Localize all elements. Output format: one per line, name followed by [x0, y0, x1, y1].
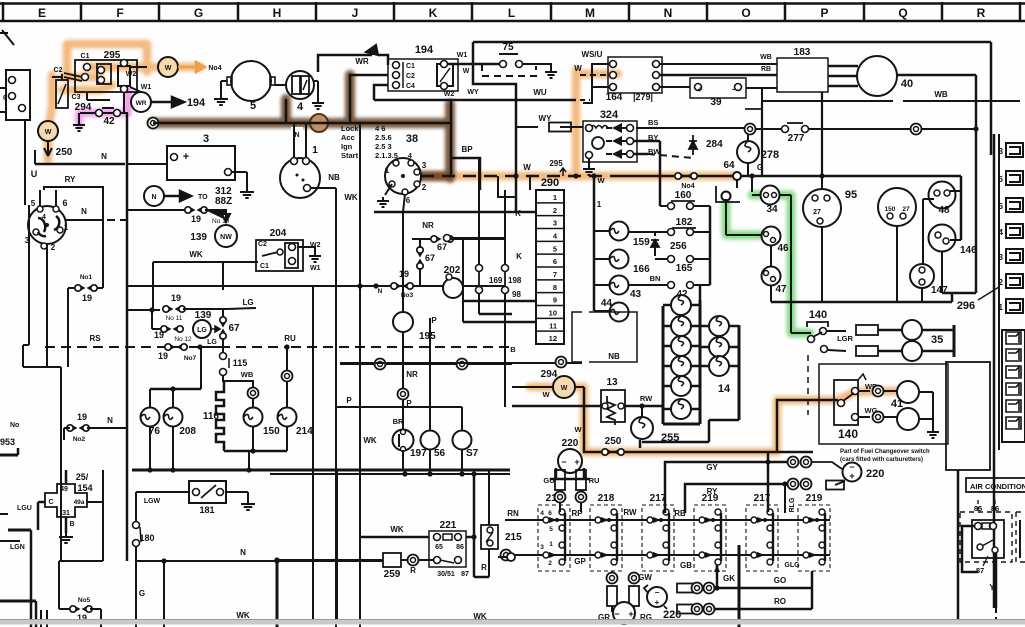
- lamp 41b: [897, 408, 919, 430]
- svg-text:220: 220: [562, 438, 579, 449]
- svg-text:47: 47: [775, 284, 787, 295]
- svg-text:Acc: Acc: [341, 133, 355, 142]
- svg-text:−: −: [614, 609, 619, 619]
- svg-text:N: N: [378, 288, 383, 295]
- svg-text:198: 198: [508, 276, 522, 285]
- svg-text:4: 4: [408, 153, 412, 160]
- circle N: [144, 186, 164, 206]
- svg-text:19: 19: [154, 330, 164, 340]
- lamp 35b: [821, 346, 828, 353]
- battery 220 right: [843, 463, 862, 482]
- matrix frame bottom: [639, 440, 642, 448]
- svg-text:F: F: [116, 6, 123, 20]
- connector 67 LG: [222, 309, 224, 318]
- svg-text:19: 19: [191, 214, 201, 224]
- svg-text:4: 4: [999, 228, 1004, 237]
- ignition switch 38: [385, 158, 421, 194]
- svg-text:3: 3: [999, 253, 1004, 262]
- rotary switch 6: [28, 206, 66, 244]
- svg-text:208: 208: [179, 426, 196, 437]
- svg-text:220: 220: [866, 468, 884, 480]
- warning lamp 47: [762, 267, 781, 286]
- wire WR arrow: [314, 64, 388, 66]
- svg-text:WY: WY: [539, 114, 553, 123]
- circle NW 139: [215, 225, 237, 247]
- connector 67 horiz: [412, 238, 430, 240]
- svg-text:H: H: [273, 6, 282, 20]
- svg-text:34: 34: [766, 204, 778, 215]
- matrix bottom: [663, 423, 700, 426]
- svg-text:25/: 25/: [76, 472, 89, 482]
- connector block 194: [388, 59, 458, 91]
- left verticals: [28, 205, 30, 345]
- svg-text:W: W: [561, 385, 568, 392]
- main feed wire W right: [421, 175, 615, 178]
- svg-text:Ign: Ign: [341, 142, 353, 151]
- svg-text:159: 159: [633, 237, 650, 248]
- svg-text:W1: W1: [141, 84, 152, 91]
- svg-text:WB: WB: [934, 90, 948, 99]
- connector 19 No2: [67, 425, 73, 431]
- svg-text:2: 2: [548, 560, 552, 567]
- svg-text:W2: W2: [444, 91, 455, 98]
- svg-text:G: G: [139, 589, 145, 598]
- svg-text:115: 115: [233, 358, 248, 368]
- switch 277: [782, 126, 789, 133]
- bottom scan band: [0, 620, 1025, 625]
- wire W1 drop: [591, 173, 596, 178]
- svg-text:−: −: [732, 85, 737, 94]
- svg-text:6: 6: [62, 198, 67, 208]
- svg-text:3: 3: [553, 219, 557, 228]
- gauge 95: [803, 189, 841, 227]
- GY wire: [665, 462, 788, 513]
- svg-text:164: 164: [606, 92, 623, 103]
- connector 250: [602, 449, 608, 455]
- svg-text:Lock: Lock: [341, 124, 359, 133]
- svg-text:No1: No1: [80, 274, 93, 281]
- wire N horizontal: [35, 163, 125, 166]
- svg-text:WK: WK: [344, 193, 358, 202]
- highlight brown ignition trace: [153, 75, 450, 178]
- svg-text:169: 169: [489, 276, 503, 285]
- lamp 255: [641, 406, 643, 417]
- svg-text:294: 294: [75, 102, 92, 113]
- svg-text:14: 14: [718, 383, 731, 395]
- svg-text:64: 64: [723, 160, 735, 171]
- wire WY mid: [516, 126, 538, 128]
- svg-text:48: 48: [938, 205, 950, 216]
- svg-text:W: W: [165, 65, 172, 72]
- svg-text:W: W: [597, 176, 605, 185]
- wire WK: [153, 261, 258, 263]
- fuel changeover box: [819, 364, 948, 444]
- svg-text:27: 27: [902, 206, 910, 213]
- svg-text:277: 277: [788, 133, 805, 144]
- svg-text:N: N: [107, 416, 113, 425]
- connector No1 19: [102, 281, 104, 288]
- svg-text:No: No: [10, 422, 19, 429]
- wire P step: [336, 406, 462, 408]
- svg-text:67: 67: [228, 323, 240, 334]
- svg-text:R: R: [481, 563, 487, 572]
- svg-text:G: G: [194, 6, 203, 20]
- svg-text:3: 3: [422, 161, 427, 170]
- svg-text:19: 19: [171, 293, 181, 303]
- svg-text:C4: C4: [406, 83, 415, 90]
- svg-text:N: N: [664, 6, 673, 20]
- svg-text:1: 1: [64, 223, 69, 232]
- relay 221: [429, 531, 466, 567]
- lamp 150: [248, 388, 259, 399]
- alternator 40: [857, 56, 897, 96]
- svg-text:LGR: LGR: [837, 334, 853, 343]
- svg-text:BP: BP: [461, 145, 473, 154]
- svg-text:LGU: LGU: [17, 505, 32, 512]
- top-left fragments: [0, 32, 8, 34]
- svg-text:No4: No4: [208, 65, 221, 72]
- switch 42: [80, 112, 128, 114]
- svg-text:B: B: [69, 521, 74, 528]
- svg-text:RN: RN: [507, 509, 519, 518]
- svg-text:Part of Fuel Changeover switch: Part of Fuel Changeover switch: [840, 449, 930, 455]
- connector 19 No3: [391, 283, 397, 289]
- svg-text:11: 11: [549, 321, 557, 330]
- relay top line: [505, 519, 830, 521]
- connector 67 vert: [417, 247, 423, 253]
- svg-text:87: 87: [461, 571, 469, 578]
- svg-text:250: 250: [605, 436, 622, 447]
- svg-text:255: 255: [661, 432, 679, 444]
- svg-text:NR: NR: [406, 370, 418, 379]
- svg-text:C2: C2: [54, 67, 63, 74]
- svg-text:2: 2: [422, 183, 427, 192]
- svg-text:42: 42: [103, 116, 115, 127]
- wire N bottom: [137, 560, 383, 562]
- svg-text:RY: RY: [707, 487, 718, 496]
- svg-text:GU: GU: [543, 476, 554, 485]
- left connector block: [6, 70, 30, 120]
- lamp branch 76 208: [200, 347, 202, 389]
- switch 165: [668, 256, 675, 263]
- svg-text:N: N: [101, 152, 107, 161]
- svg-text:No7: No7: [184, 355, 197, 362]
- svg-text:3: 3: [999, 147, 1004, 156]
- svg-text:−: −: [561, 457, 566, 467]
- svg-text:WK: WK: [363, 436, 377, 445]
- svg-text:38: 38: [406, 133, 418, 145]
- svg-text:182: 182: [676, 217, 693, 228]
- svg-text:K: K: [516, 252, 522, 261]
- svg-text:5: 5: [250, 100, 256, 112]
- svg-text:WR: WR: [355, 57, 369, 66]
- svg-text:6: 6: [999, 175, 1004, 184]
- ballast 4: [286, 71, 314, 99]
- svg-text:GY: GY: [706, 463, 718, 472]
- bus under lamps: [224, 450, 287, 453]
- circle WR to 194 arrow: [131, 92, 151, 112]
- svg-text:RU: RU: [284, 334, 296, 343]
- svg-text:5: 5: [549, 526, 553, 533]
- svg-text:GK: GK: [723, 574, 735, 583]
- svg-text:195: 195: [419, 331, 436, 342]
- svg-text:GB: GB: [680, 561, 692, 570]
- svg-text:219: 219: [806, 493, 823, 504]
- fuses GU RU: [555, 470, 565, 490]
- svg-text:BN: BN: [650, 274, 661, 283]
- connector stack lower: [1002, 330, 1025, 442]
- svg-text:290: 290: [541, 177, 559, 189]
- svg-text:160: 160: [675, 190, 692, 201]
- connector No5: [102, 470, 104, 561]
- svg-text:35: 35: [931, 334, 943, 346]
- svg-text:C1: C1: [81, 53, 90, 60]
- svg-text:65: 65: [435, 544, 443, 551]
- bottom left corner: [0, 600, 36, 603]
- svg-text:165: 165: [676, 263, 693, 274]
- svg-text:256: 256: [670, 241, 687, 252]
- matrix lamps right: [700, 325, 739, 328]
- svg-text:WK: WK: [236, 611, 250, 620]
- wire 238: [447, 237, 505, 239]
- svg-text:W: W: [542, 390, 550, 399]
- fuse 259: [277, 559, 383, 561]
- junction to 95: [751, 176, 753, 192]
- svg-text:278: 278: [761, 149, 779, 161]
- switch 215: [488, 470, 490, 525]
- svg-text:NB: NB: [608, 352, 620, 361]
- svg-text:GP: GP: [574, 557, 586, 566]
- svg-text:204: 204: [270, 228, 287, 239]
- svg-text:1: 1: [312, 145, 318, 156]
- svg-text:RY: RY: [65, 175, 76, 184]
- lamp 56: [421, 431, 440, 450]
- svg-text:No3: No3: [401, 292, 414, 299]
- svg-text:250: 250: [56, 147, 73, 158]
- gauge 150 27: [878, 188, 916, 226]
- svg-text:67: 67: [425, 253, 435, 263]
- svg-text:WR: WR: [136, 100, 147, 107]
- svg-text:139: 139: [190, 232, 207, 243]
- connector 19 No10: [127, 209, 185, 211]
- switch 115: [222, 338, 224, 352]
- svg-text:46: 46: [777, 243, 789, 254]
- svg-text:WB: WB: [760, 54, 772, 61]
- svg-text:296: 296: [957, 300, 975, 312]
- lamp 41a: [897, 381, 919, 403]
- circle W left: [38, 121, 58, 141]
- ac second dashed box: [1016, 511, 1025, 513]
- air condition frame: [957, 470, 960, 620]
- svg-text:RU: RU: [589, 476, 600, 485]
- battery 2 and GO RO runs: [647, 587, 667, 607]
- svg-text:S7: S7: [466, 448, 479, 459]
- svg-text:3: 3: [203, 133, 209, 145]
- svg-text:No4: No4: [681, 183, 694, 190]
- svg-text:197: 197: [410, 448, 427, 459]
- svg-text:19: 19: [399, 269, 409, 279]
- battery 220 bottom: [613, 602, 635, 624]
- gauge 48: [929, 182, 956, 209]
- svg-text:GLG: GLG: [784, 562, 800, 569]
- svg-text:Start: Start: [341, 151, 359, 160]
- svg-text:6: 6: [3, 95, 7, 102]
- wire RW: [336, 405, 601, 407]
- wire 314 322 thick: [462, 239, 464, 322]
- gauge 147: [910, 264, 934, 288]
- svg-text:NW: NW: [220, 234, 232, 241]
- thick vertical 474: [473, 474, 476, 577]
- svg-text:N: N: [81, 207, 87, 216]
- wire to 39: [660, 86, 690, 88]
- svg-text:1: 1: [385, 166, 390, 175]
- svg-text:RW: RW: [623, 508, 637, 517]
- svg-text:67: 67: [437, 242, 447, 252]
- lamp S7: [453, 431, 472, 450]
- svg-text:3: 3: [540, 544, 544, 551]
- svg-text:1: 1: [553, 193, 557, 202]
- svg-text:88Z: 88Z: [215, 196, 232, 207]
- circle LG 139: [151, 310, 153, 329]
- lamp 278: [737, 141, 759, 163]
- wire long horiz 212: [374, 211, 536, 214]
- svg-text:C3: C3: [72, 94, 81, 101]
- svg-text:Y: Y: [989, 583, 995, 592]
- svg-text:953: 953: [0, 437, 15, 447]
- svg-text:87: 87: [976, 566, 984, 575]
- vertical right edge: [990, 42, 993, 155]
- gauge 146: [929, 225, 956, 252]
- svg-text:44: 44: [601, 298, 613, 309]
- relay 204: [256, 240, 303, 271]
- lamp 76: [141, 408, 160, 427]
- svg-text:RB: RB: [761, 66, 771, 73]
- frame stub 109: [745, 108, 762, 110]
- svg-text:1: 1: [597, 200, 602, 209]
- bracket 64: [716, 186, 740, 202]
- lamp 214: [282, 371, 293, 382]
- svg-text:NR: NR: [422, 221, 434, 230]
- svg-text:218: 218: [598, 493, 615, 504]
- svg-text:95: 95: [845, 189, 857, 201]
- svg-text:M: M: [585, 6, 595, 20]
- svg-text:P: P: [820, 6, 828, 20]
- GO wire: [717, 587, 812, 590]
- ac wires: [962, 526, 978, 572]
- ac relay dashed: [960, 512, 1012, 562]
- svg-text:W: W: [523, 163, 531, 172]
- relay 218 to battery 220 bottom: [611, 571, 613, 573]
- matrix lamps left: [663, 304, 700, 307]
- svg-text:RO: RO: [774, 597, 786, 606]
- svg-text:+: +: [849, 471, 854, 481]
- svg-text:1: 1: [549, 541, 553, 548]
- svg-text:+: +: [574, 457, 579, 467]
- svg-text:147: 147: [931, 285, 948, 296]
- lamp 159: [594, 230, 610, 232]
- svg-text:4: 4: [297, 101, 304, 113]
- svg-text:150: 150: [885, 206, 896, 213]
- fuse C3 294: [56, 80, 68, 108]
- svg-text:Q: Q: [898, 6, 907, 20]
- svg-text:LGW: LGW: [144, 498, 161, 505]
- lamp matrix buses: [662, 306, 665, 424]
- switch 181: [189, 481, 226, 503]
- svg-text:2: 2: [999, 278, 1004, 287]
- svg-text:P: P: [346, 396, 352, 405]
- svg-text:5: 5: [553, 244, 557, 253]
- svg-text:43: 43: [630, 289, 642, 300]
- svg-text:N: N: [240, 548, 246, 557]
- svg-text:B: B: [510, 345, 516, 354]
- svg-text:98: 98: [512, 290, 521, 299]
- svg-text:2.5.6: 2.5.6: [375, 133, 392, 142]
- svg-text:N: N: [151, 194, 156, 201]
- wire C2 down: [350, 75, 388, 123]
- dashed runs 347 364: [340, 363, 512, 365]
- wire WB lamp: [223, 375, 253, 388]
- dashed bracket: [807, 355, 809, 415]
- wires WB RB to 183: [660, 63, 777, 65]
- svg-text:295: 295: [104, 50, 121, 61]
- svg-text:+: +: [698, 85, 703, 94]
- wire BS 277 run: [636, 127, 750, 129]
- svg-text:RS: RS: [89, 334, 101, 343]
- svg-text:30/51: 30/51: [437, 571, 455, 578]
- lamp 166: [594, 258, 610, 260]
- svg-text:AIR CONDITION: AIR CONDITION: [970, 482, 1025, 491]
- svg-text:2.1.3.5: 2.1.3.5: [375, 151, 398, 160]
- svg-text:27: 27: [813, 209, 821, 216]
- svg-text:No5: No5: [78, 597, 91, 604]
- highlight green trace: [726, 195, 810, 333]
- diode 284: [689, 135, 697, 155]
- svg-text:6: 6: [553, 257, 557, 266]
- wire WU long: [374, 99, 576, 102]
- svg-text:L: L: [508, 6, 515, 20]
- lamp 43: [594, 284, 610, 286]
- switch 180: [133, 522, 140, 529]
- svg-text:C2: C2: [258, 241, 267, 248]
- thick vertical 739: [738, 545, 741, 627]
- svg-text:2.5 3: 2.5 3: [375, 142, 392, 151]
- svg-text:8: 8: [553, 283, 557, 292]
- svg-text:180: 180: [139, 533, 154, 543]
- highlight orange charging trace: [48, 44, 897, 452]
- connector No4 main: [675, 173, 681, 179]
- lamp 44: [594, 310, 610, 312]
- svg-text:166: 166: [633, 264, 650, 275]
- svg-text:10: 10: [549, 309, 557, 318]
- right bus: [771, 301, 952, 304]
- svg-text:WK: WK: [390, 525, 404, 534]
- svg-text:LG: LG: [242, 298, 253, 307]
- svg-text:C1: C1: [406, 63, 415, 70]
- svg-text:K: K: [515, 209, 521, 218]
- svg-text:+: +: [628, 609, 633, 619]
- top bus line: [473, 41, 991, 44]
- svg-text:4: 4: [42, 214, 46, 221]
- svg-text:No 12: No 12: [174, 336, 192, 343]
- relay 295 box: [75, 60, 137, 92]
- wire 183 to gauge 95: [821, 92, 823, 176]
- svg-text:C2: C2: [406, 73, 415, 80]
- svg-text:154: 154: [77, 483, 92, 493]
- RY wire: [685, 484, 785, 513]
- wire 294 to ground: [86, 92, 88, 100]
- svg-text:1: 1: [999, 303, 1004, 312]
- svg-text:140: 140: [838, 427, 858, 441]
